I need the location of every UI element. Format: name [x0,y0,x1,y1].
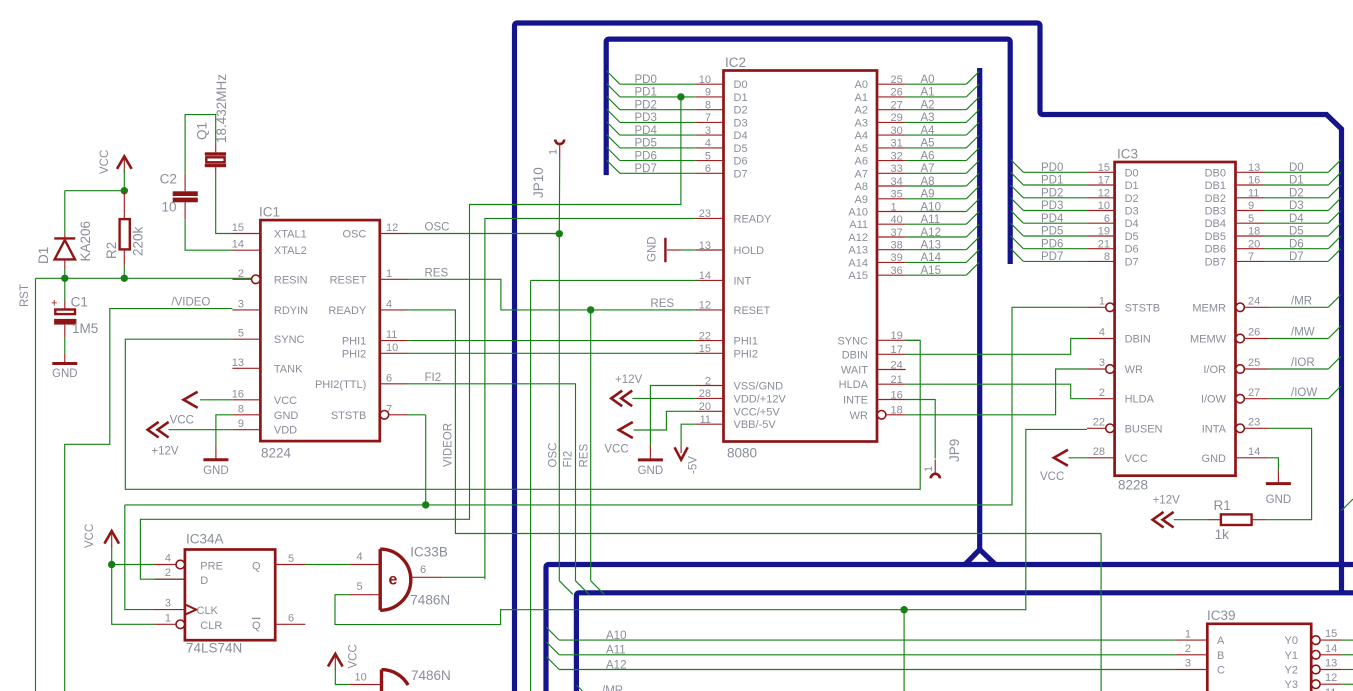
svg-text:Y2: Y2 [1285,665,1298,677]
IC2 pin 28 VDD/+12V [696,397,724,399]
svg-text:8224: 8224 [261,446,292,461]
IC3 pin 28 VCC [1087,457,1115,459]
svg-text:B: B [1217,650,1224,662]
svg-text:+: + [51,298,57,310]
wire OSC bus entry diagonal [559,581,573,595]
IC2 pin 13 HOLD [696,249,724,251]
power VCC arrow at IC1 pin 16 [200,399,232,401]
IC34A pin 6 Qbar output [275,623,305,625]
svg-text:PD2: PD2 [635,100,657,112]
IC2 pin 7 D3 with bus entry PD3 [607,109,620,122]
svg-text:PD0: PD0 [635,74,657,86]
svg-text:36: 36 [891,265,903,277]
svg-text:10: 10 [355,672,367,684]
svg-text:A9: A9 [855,194,868,206]
svg-text:33: 33 [891,163,903,175]
IC3 pin 25 I/OR [1236,365,1245,374]
svg-text:20: 20 [1248,238,1260,250]
IC2 pin 21 HLDA [877,383,906,385]
svg-text:/MW: /MW [1291,327,1315,339]
node junction OSC / JP10 [556,230,563,237]
bus: bottom bus 2 (lower horizontal with left leg) [576,593,1353,691]
svg-text:HOLD: HOLD [734,245,765,257]
svg-text:PD1: PD1 [1041,175,1063,187]
svg-text:1: 1 [891,201,897,213]
svg-text:FI2: FI2 [563,451,575,468]
svg-text:5: 5 [705,150,711,162]
svg-text:A7: A7 [921,163,935,175]
svg-text:RST: RST [19,284,31,307]
IC3 pin 19 D5 with bus entry PD5 [1011,223,1024,236]
svg-text:TANK: TANK [274,363,303,375]
power VCC symbol above R2 [117,156,132,169]
svg-text:8: 8 [238,403,244,415]
svg-text:PD7: PD7 [635,163,657,175]
node junction STSTB [422,501,429,508]
svg-text:DB3: DB3 [1205,206,1226,218]
IC2 pin 14 INT [696,279,724,281]
wire net STSTB left leg to IC34A CLK [125,505,155,610]
IC2 pin 31 A5 with bus entry [877,147,906,149]
IC3 pin 4 DBIN [1087,338,1115,340]
wire net INT vertical [530,280,532,691]
svg-text:39: 39 [891,252,903,264]
svg-text:38: 38 [891,240,903,252]
svg-text:VBB/-5V: VBB/-5V [734,419,777,431]
IC2 pin 10 D0 with bus entry PD0 [607,71,620,84]
svg-text:D4: D4 [1125,218,1139,230]
svg-text:DB0: DB0 [1205,167,1226,179]
svg-text:A9: A9 [921,189,935,201]
IC2 pin 38 A13 with bus entry [877,249,906,251]
IC2 pin 36 A15 with bus entry [877,274,906,276]
svg-text:30: 30 [891,125,903,137]
svg-text:13: 13 [1248,162,1260,174]
connector JP10 pin 1 [555,140,564,145]
IC1 pin 3 RDYIN [232,309,260,311]
svg-text:A14: A14 [848,257,868,269]
svg-text:6: 6 [288,613,294,625]
svg-text:INTA: INTA [1202,423,1227,435]
wire RST vertical to bottom [35,278,37,691]
svg-text:JP9: JP9 [947,439,962,462]
svg-text:13: 13 [232,357,244,369]
crystal Q1 18.432MHz [215,144,217,152]
power VCC arrow at IC2 pin 20 [634,411,696,430]
wire Q to XOR input 4 [305,564,349,566]
svg-text:6: 6 [705,163,711,175]
svg-text:VCC: VCC [170,415,194,427]
svg-text:D2: D2 [1125,193,1139,205]
svg-text:8228: 8228 [1118,478,1148,493]
IC3 pin 21 D6 with bus entry PD6 [1011,236,1024,249]
IC2 pin 24 WAIT [877,369,906,371]
svg-text:VIDEOR: VIDEOR [443,423,455,467]
svg-text:19: 19 [1098,226,1110,238]
svg-text:DB7: DB7 [1205,256,1226,268]
IC2 pin 9 D1 with bus entry PD1 [607,84,620,97]
svg-text:16: 16 [1248,175,1260,187]
svg-text:1: 1 [1185,628,1191,640]
svg-text:VCC: VCC [604,444,628,456]
svg-text:D1: D1 [734,92,748,104]
svg-text:D1: D1 [1289,175,1304,187]
svg-text:A7: A7 [855,168,868,180]
node junction R2 bottom [121,275,128,282]
IC2 pin 39 A14 with bus entry [877,261,906,263]
node junction D1/C1 [61,275,68,282]
svg-text:18.432MHz: 18.432MHz [214,74,229,143]
wire IC2 INTE to JP9 [906,400,936,459]
svg-text:INTE: INTE [843,395,868,407]
ground symbol below C1 [52,362,77,365]
svg-text:R2: R2 [104,242,119,259]
IC2 pin 2 VSS/GND [696,385,724,387]
IC2 pin 16 INTE [877,399,906,401]
svg-text:FI2: FI2 [425,372,442,384]
ground symbol below IC1 [203,458,228,461]
svg-text:24: 24 [1248,296,1260,308]
node junction RES vertical [587,306,594,313]
svg-text:RESIN: RESIN [274,274,308,286]
svg-text:2: 2 [238,268,244,280]
svg-text:A3: A3 [921,112,935,124]
capacitor C1 1M5 electrolytic [64,278,66,300]
IC2 pin 19 SYNC [877,339,906,341]
svg-text:C: C [1217,665,1225,677]
IC1 pin 7 STSTB [380,411,389,420]
svg-text:/MR: /MR [1291,296,1312,308]
wire A11 from bus with entry [546,642,559,655]
wire net STSTB horizontal [125,307,1087,505]
bus: inner data bus PD0-PD7 [606,39,1010,264]
svg-text:A15: A15 [848,270,868,282]
7486N pin 10 input [350,684,382,686]
svg-text:2: 2 [705,375,711,387]
wire bus entry bottom right [1341,499,1353,511]
svg-text:OSC: OSC [425,222,450,234]
IC3 pin 22 BUSEN [1106,424,1115,433]
svg-text:RES: RES [650,298,674,310]
svg-text:11: 11 [1325,687,1336,691]
capacitor C2 10 [184,174,186,192]
svg-text:KA206: KA206 [78,221,93,262]
IC3 pin 3 WR [1106,365,1115,374]
svg-text:9: 9 [705,87,711,99]
svg-text:28: 28 [699,388,711,400]
svg-text:40: 40 [891,214,903,226]
svg-text:9: 9 [238,418,244,430]
IC1 pin 5 SYNC [232,338,260,340]
svg-text:D7: D7 [1289,251,1304,263]
svg-text:A10: A10 [848,207,868,219]
IC1 pin 1 RESET [380,278,408,280]
svg-text:Y3: Y3 [1285,679,1298,691]
IC33B pin 5 input [349,594,380,596]
IC1 pin 2 RESIN [252,275,261,284]
wire net STSTB from IC1 pin 7 [425,415,427,505]
IC1 pin 4 READY [380,309,408,311]
svg-text:7: 7 [705,112,711,124]
svg-text:74LS74N: 74LS74N [186,641,242,656]
svg-text:BUSEN: BUSEN [1125,423,1163,435]
IC2 pin 11 VBB/-5V [696,423,724,425]
svg-text:10: 10 [699,74,711,86]
svg-text:GND: GND [638,465,664,477]
svg-text:OSC: OSC [342,229,366,241]
svg-text:STSTB: STSTB [331,410,366,422]
svg-text:HLDA: HLDA [1125,394,1155,406]
svg-text:16: 16 [891,389,903,401]
svg-text:READY: READY [734,213,773,225]
svg-text:A14: A14 [921,252,942,264]
svg-text:8: 8 [705,100,711,112]
svg-text:A13: A13 [848,245,868,257]
IC2 pin 40 A11 with bus entry [877,223,906,225]
wire A12 from bus with entry [546,657,559,670]
IC2 pin 27 A2 with bus entry [877,109,906,111]
IC2 pin 25 A0 with bus entry [877,83,906,85]
wire net INT from corner [531,279,697,281]
svg-text:R1: R1 [1214,498,1231,513]
IC3 pin 12 D2 with bus entry PD2 [1011,185,1024,198]
svg-text:+12V: +12V [151,446,179,458]
svg-text:D3: D3 [1125,206,1139,218]
wire net RES vertical drop [590,310,592,581]
wire net RES from IC1 pin 1 [408,279,697,310]
svg-text:VCC/+5V: VCC/+5V [734,406,781,418]
svg-text:IC39: IC39 [1207,608,1236,623]
svg-text:A: A [1217,635,1225,647]
svg-text:7: 7 [386,403,392,415]
svg-text:PD0: PD0 [1041,162,1063,174]
IC1 pin 6 PHI2(TTL) [380,383,408,385]
svg-text:1: 1 [165,612,171,624]
svg-text:23: 23 [1248,417,1260,429]
IC3 pin 6 D4 with bus entry PD4 [1011,211,1024,224]
svg-text:STSTB: STSTB [1125,302,1160,314]
svg-text:PHI2(TTL): PHI2(TTL) [315,379,366,391]
flip-flop IC34A 74LS74N box [185,550,275,641]
node junction PD1 branch [677,93,684,100]
IC2 pin 18 WR [877,411,886,420]
svg-text:D2: D2 [1289,187,1304,199]
wire BUSEN drop to bottom edge [903,610,905,691]
IC2 pin 12 RESET [696,309,724,311]
svg-text:DB1: DB1 [1205,180,1226,192]
svg-text:A0: A0 [921,74,935,86]
svg-text:5: 5 [288,553,294,565]
wire FI2 bus entry diagonal [576,581,590,595]
svg-text:A6: A6 [921,150,935,162]
wire VCC stub to R2 junction [123,170,125,191]
IC3 pin 2 HLDA [1087,398,1115,400]
svg-text:27: 27 [891,100,903,112]
svg-text:2: 2 [165,567,171,579]
svg-text:D0: D0 [1125,167,1139,179]
wire IC2 pin 2 VSS to GND [650,386,695,445]
wire net FI2 from IC1 pin 6 [408,384,576,581]
svg-text:I/OR: I/OR [1203,364,1226,376]
svg-text:A2: A2 [855,105,868,117]
xor-gate IC33 second 7486N (bottom, clipped) [382,670,409,691]
svg-text:11: 11 [386,329,397,341]
svg-text:JP10: JP10 [531,167,546,198]
wire net /MR with bus entry [1269,306,1329,308]
bus-driver IC3 8228 box [1115,162,1236,476]
svg-text:IC1: IC1 [259,205,280,220]
svg-text:I/OW: I/OW [1201,394,1227,406]
svg-text:A6: A6 [855,156,868,168]
svg-text:28: 28 [1093,446,1105,458]
svg-text:/IOW: /IOW [1291,387,1317,399]
resistor R2 [123,191,125,219]
svg-text:15: 15 [1098,162,1110,174]
svg-text:A15: A15 [921,265,941,277]
bus: Y-merge of address bus into bottom bus [965,550,997,566]
IC1 pin 16 VCC [232,399,260,401]
IC39 pin 1 A [1175,639,1208,641]
IC2 pin 15 PHI2 [696,352,724,354]
decoder IC39 box (clipped at bottom) [1207,624,1311,691]
power -5V arrow at IC2 pin 11 [681,424,696,446]
svg-text:8080: 8080 [727,446,757,461]
IC3 pin 15 D0 with bus entry PD0 [1011,160,1024,173]
node junction BUSEN drop [900,606,907,613]
power VCC arrow for IC34A [104,531,119,544]
svg-text:D6: D6 [1125,244,1139,256]
svg-text:VCC: VCC [274,395,297,407]
svg-text:11: 11 [700,414,711,426]
IC3 pin 27 I/OW [1236,394,1245,403]
IC1 pin 14 XTAL2 [232,249,260,251]
svg-text:1: 1 [923,466,935,472]
IC3 pin 11 DB2 with bus entry D2 [1236,197,1265,199]
svg-text:PD4: PD4 [1041,213,1064,225]
wire IC3 INTA to R1 [1266,428,1312,519]
IC2 pin 17 DBIN [877,353,906,355]
svg-text:14: 14 [1325,643,1337,655]
svg-text:13: 13 [1325,658,1337,670]
svg-text:4: 4 [165,553,171,565]
IC2 pin 5 D6 with bus entry PD6 [607,147,620,160]
IC3 pin 14 GND [1236,457,1269,459]
svg-text:35: 35 [891,189,903,201]
svg-text:HLDA: HLDA [839,379,869,391]
IC3 pin 8 D7 with bus entry PD7 [1011,249,1024,262]
IC33B pin 4 input [349,564,380,566]
svg-text:25: 25 [891,74,903,86]
svg-text:3: 3 [1185,658,1191,670]
svg-text:D4: D4 [734,130,748,142]
svg-text:D: D [200,575,208,587]
svg-text:IC33B: IC33B [410,545,448,560]
IC39 pin 3 C [1175,669,1208,671]
svg-text:VSS/GND: VSS/GND [734,381,784,393]
wire net /IOW with bus entry [1269,398,1329,400]
svg-text:7486N: 7486N [410,593,450,608]
svg-text:PHI2: PHI2 [734,348,758,360]
svg-text:Y0: Y0 [1285,635,1298,647]
svg-text:D3: D3 [734,117,748,129]
svg-text:A11: A11 [849,219,868,231]
svg-text:6: 6 [386,372,392,384]
svg-text:IC34A: IC34A [186,532,224,547]
wire C2 bottom to XTAL2 [185,219,232,250]
svg-text:14: 14 [1248,446,1260,458]
wire net OSC from IC1 pin 12 [408,233,559,235]
svg-text:4: 4 [1099,327,1105,339]
svg-text:WR: WR [1125,364,1143,376]
wire IC2 HLDA to IC3 HLDA [906,384,1087,399]
svg-text:READY: READY [328,305,367,317]
svg-text:-5V: -5V [688,456,700,474]
svg-text:18: 18 [891,405,903,417]
svg-text:WAIT: WAIT [841,365,868,377]
svg-text:15: 15 [232,222,244,234]
svg-text:XTAL2: XTAL2 [274,245,307,257]
svg-text:D2: D2 [734,105,748,117]
svg-text:17: 17 [1098,175,1110,187]
svg-text:27: 27 [1248,387,1260,399]
svg-text:6: 6 [1104,213,1110,225]
wire top node R2/D1 [65,190,125,192]
svg-text:17: 17 [891,344,903,356]
resistor R1 1k [1207,519,1221,521]
svg-text:22: 22 [1093,417,1105,429]
node junction VCC/PRE [108,561,115,568]
svg-text:VCC: VCC [1040,471,1064,483]
wire A10 from bus with entry [546,627,559,640]
IC2 pin 34 A8 with bus entry [877,185,906,187]
svg-text:A8: A8 [855,181,868,193]
svg-text:e: e [389,572,398,589]
svg-text:5: 5 [1248,213,1254,225]
svg-text:32: 32 [891,150,903,162]
IC34A pin 5 Q output [275,564,305,566]
IC3 pin 7 DB7 with bus entry D7 [1236,260,1265,262]
svg-text:VDD: VDD [274,425,297,437]
IC2 pin 8 D2 with bus entry PD2 [607,97,620,110]
IC2 pin 22 PHI1 [696,340,724,342]
svg-text:220k: 220k [131,226,146,256]
svg-text:RESET: RESET [330,274,367,286]
IC2 pin 33 A7 with bus entry [877,172,906,174]
wire net /MW with bus entry [1269,338,1329,340]
power +12V arrow at IC2 pin 28 [632,397,695,399]
svg-text:25: 25 [1248,357,1260,369]
IC39 pin 14 Y1 [1312,651,1321,660]
svg-text:12: 12 [699,300,711,312]
svg-text:15: 15 [699,343,711,355]
wire IC2 DBIN to IC3 DBIN [906,339,1087,355]
svg-text:D1: D1 [36,247,51,264]
IC34A pin 2 D [155,578,185,580]
svg-text:PD7: PD7 [1041,251,1063,263]
svg-text:D5: D5 [1125,231,1139,243]
svg-text:21: 21 [1098,238,1110,250]
wire net VIDEOR drop to bottom [1100,534,1102,691]
svg-text:26: 26 [1248,327,1260,339]
wire net VIDEOR from IC1 READY pin 4 [408,310,1101,534]
IC1 pin 11 PHI1 [380,340,408,342]
svg-text:D1: D1 [1125,180,1139,192]
svg-text:PD3: PD3 [635,112,657,124]
svg-text:A12: A12 [848,232,868,244]
node junction at R2 top [121,187,128,194]
svg-text:3: 3 [705,125,711,137]
svg-text:PHI1: PHI1 [342,336,366,348]
